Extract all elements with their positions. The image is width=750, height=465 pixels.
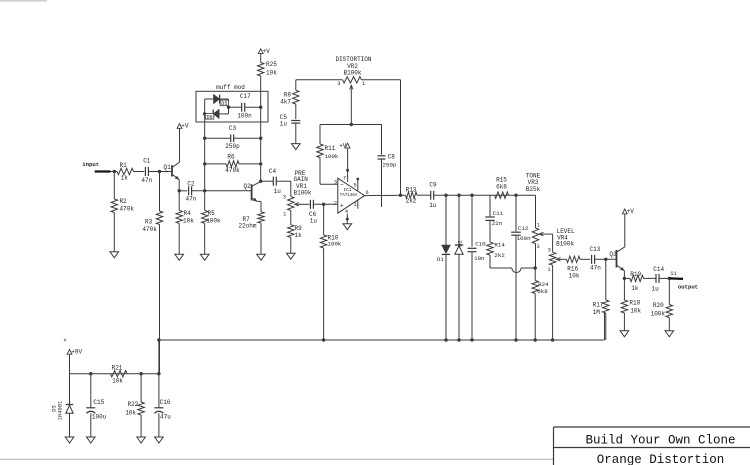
- svg-text:47u: 47u: [160, 414, 171, 421]
- svg-text:2k2: 2k2: [494, 252, 505, 259]
- svg-text:GAIN: GAIN: [294, 176, 309, 183]
- svg-text:3: 3: [283, 195, 286, 201]
- svg-text:1: 1: [283, 211, 286, 217]
- svg-text:1k: 1k: [295, 232, 303, 239]
- svg-text:R5: R5: [208, 210, 216, 217]
- svg-text:IC1: IC1: [344, 188, 352, 193]
- svg-text:R6: R6: [227, 154, 235, 161]
- svg-text:B25k: B25k: [526, 186, 541, 193]
- svg-text:6: 6: [366, 190, 369, 196]
- svg-text:+V: +V: [627, 208, 635, 215]
- svg-text:D1: D1: [437, 256, 444, 263]
- svg-text:100k: 100k: [325, 153, 339, 160]
- svg-text:22n: 22n: [492, 220, 502, 227]
- svg-text:Q2: Q2: [244, 183, 252, 190]
- svg-text:47n: 47n: [186, 196, 197, 203]
- svg-text:1: 1: [362, 81, 365, 87]
- svg-text:+V: +V: [181, 123, 189, 130]
- svg-text:R25: R25: [266, 61, 277, 68]
- svg-text:6k8: 6k8: [537, 288, 548, 295]
- svg-text:+9V: +9V: [71, 349, 82, 356]
- svg-text:1N4001: 1N4001: [58, 401, 64, 420]
- svg-text:R19: R19: [630, 271, 641, 278]
- svg-text:R16: R16: [567, 265, 578, 272]
- svg-text:R21: R21: [112, 365, 123, 372]
- svg-text:C17: C17: [240, 93, 251, 100]
- svg-text:R2: R2: [120, 198, 128, 205]
- svg-text:1u: 1u: [274, 188, 282, 195]
- svg-text:C9: C9: [429, 182, 437, 189]
- svg-text:B100k: B100k: [294, 189, 312, 196]
- svg-text:C1: C1: [143, 158, 151, 165]
- svg-text:1: 1: [537, 222, 540, 228]
- svg-text:output: output: [678, 283, 698, 290]
- svg-text:6k8: 6k8: [496, 183, 507, 190]
- svg-text:C8: C8: [388, 154, 396, 161]
- svg-text:muff mod: muff mod: [216, 84, 245, 91]
- svg-text:7: 7: [343, 175, 346, 181]
- svg-text:250p: 250p: [225, 143, 240, 150]
- svg-text:R13: R13: [406, 186, 417, 193]
- svg-text:1u: 1u: [429, 202, 437, 209]
- svg-text:5: 5: [354, 182, 357, 188]
- svg-text:100k: 100k: [328, 241, 342, 248]
- svg-text:100u: 100u: [92, 414, 107, 421]
- svg-text:+: +: [340, 202, 344, 209]
- svg-text:3: 3: [337, 81, 340, 87]
- svg-text:+V: +V: [339, 143, 347, 150]
- svg-text:1u: 1u: [310, 218, 318, 225]
- svg-text:D5: D5: [221, 101, 227, 107]
- svg-text:10k: 10k: [125, 410, 136, 417]
- svg-text:R1: R1: [120, 162, 128, 169]
- svg-text:10k: 10k: [112, 377, 123, 384]
- svg-text:10k: 10k: [183, 218, 194, 225]
- svg-text:1u: 1u: [652, 285, 660, 292]
- svg-text:B100k: B100k: [343, 69, 361, 76]
- svg-text:S1: S1: [670, 271, 676, 277]
- svg-text:3: 3: [548, 248, 551, 254]
- svg-text:100n: 100n: [237, 112, 252, 119]
- svg-text:R8: R8: [284, 91, 292, 98]
- svg-text:R17: R17: [593, 301, 604, 308]
- svg-text:10k: 10k: [569, 273, 580, 280]
- svg-text:R15: R15: [496, 176, 507, 183]
- svg-text:Q3: Q3: [609, 251, 617, 258]
- svg-text:470k: 470k: [120, 205, 135, 212]
- svg-text:10n: 10n: [474, 255, 484, 262]
- svg-text:22ohm: 22ohm: [239, 223, 257, 230]
- svg-text:100k: 100k: [651, 310, 666, 317]
- svg-text:4k7: 4k7: [280, 99, 291, 106]
- svg-text:C3: C3: [229, 125, 237, 132]
- svg-text:v: v: [64, 338, 67, 344]
- svg-text:470k: 470k: [142, 226, 157, 233]
- svg-text:1k: 1k: [121, 175, 129, 182]
- svg-text:3: 3: [537, 244, 540, 250]
- svg-text:10k: 10k: [266, 69, 277, 76]
- svg-text:+V: +V: [263, 48, 271, 55]
- svg-text:C4: C4: [269, 168, 277, 175]
- svg-text:C11: C11: [493, 210, 504, 217]
- svg-text:C16: C16: [160, 399, 171, 406]
- svg-text:R11: R11: [325, 145, 336, 152]
- svg-text:input: input: [82, 161, 99, 168]
- svg-text:470k: 470k: [225, 167, 240, 174]
- svg-text:47n: 47n: [141, 177, 152, 184]
- svg-text:R14: R14: [494, 241, 505, 248]
- svg-text:R20: R20: [653, 302, 664, 309]
- svg-text:D2: D2: [457, 240, 464, 247]
- svg-text:Orange Distortion: Orange Distortion: [597, 453, 725, 465]
- svg-text:1M: 1M: [593, 309, 601, 316]
- svg-text:100k: 100k: [206, 217, 221, 224]
- svg-text:C14: C14: [653, 266, 664, 273]
- svg-text:R24: R24: [538, 281, 549, 288]
- svg-text:C13: C13: [590, 246, 601, 253]
- svg-text:TA7136A: TA7136A: [340, 194, 358, 198]
- svg-text:R18: R18: [629, 300, 640, 307]
- svg-text:R3: R3: [145, 219, 153, 226]
- svg-text:250p: 250p: [383, 161, 397, 168]
- svg-text:1: 1: [547, 267, 550, 273]
- svg-text:100n: 100n: [517, 235, 531, 242]
- svg-text:C15: C15: [93, 399, 104, 406]
- svg-text:C2: C2: [187, 180, 195, 187]
- svg-text:10k: 10k: [630, 308, 641, 315]
- svg-text:D6: D6: [206, 115, 212, 121]
- svg-text:C12: C12: [518, 225, 529, 232]
- svg-text:2: 2: [334, 201, 337, 207]
- svg-text:1u: 1u: [280, 121, 288, 128]
- svg-text:47n: 47n: [590, 264, 601, 271]
- svg-text:Build Your Own Clone: Build Your Own Clone: [585, 434, 735, 448]
- svg-text:4: 4: [345, 209, 348, 215]
- svg-text:R22: R22: [127, 401, 138, 408]
- svg-text:C10: C10: [475, 240, 486, 247]
- svg-text:R4: R4: [184, 210, 192, 217]
- svg-text:1: 1: [354, 202, 357, 208]
- svg-text:1k: 1k: [631, 285, 639, 292]
- svg-text:B100k: B100k: [556, 241, 574, 248]
- svg-text:Q1: Q1: [164, 164, 172, 171]
- svg-text:2k2: 2k2: [406, 198, 417, 205]
